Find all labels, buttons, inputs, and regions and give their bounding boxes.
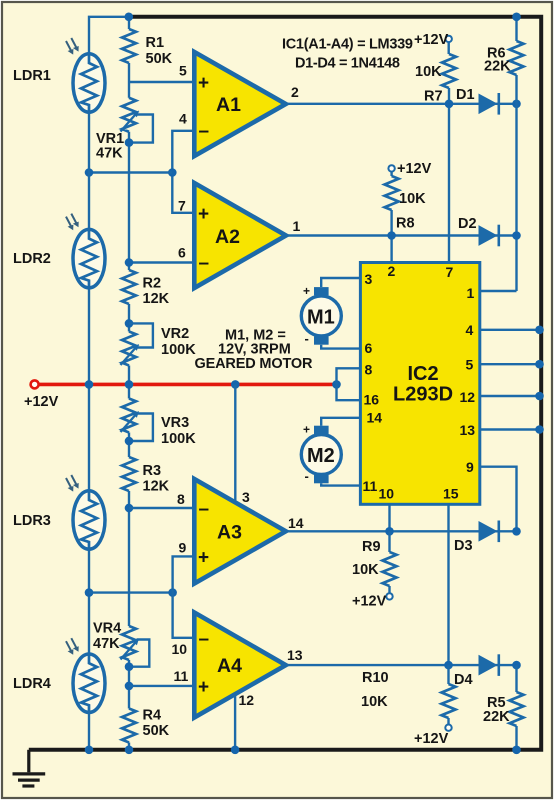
wire IC1 gnd pin 12 <box>234 694 236 750</box>
node R10/A4 out <box>444 661 453 670</box>
diode D3 <box>479 521 499 543</box>
svg-text:A2: A2 <box>215 226 240 248</box>
wire LDR4 to rail <box>88 712 90 749</box>
motor M2 <box>301 426 341 484</box>
svg-text:22K: 22K <box>484 59 511 75</box>
wire IC2 pin4 to rail <box>480 329 540 331</box>
svg-text:-: - <box>305 469 309 484</box>
svg-text:22K: 22K <box>483 709 510 725</box>
wire VR2 to VR3 <box>128 366 130 399</box>
svg-text:D4: D4 <box>454 672 473 688</box>
wire LDR3 to node <box>88 549 90 654</box>
svg-text:M2: M2 <box>307 445 335 467</box>
node LDR3/LDR4 <box>85 588 94 597</box>
wire pin11 A4 <box>129 685 194 687</box>
resistor R1 <box>122 29 136 63</box>
svg-text:+: + <box>198 548 209 569</box>
resistor R6 <box>515 17 517 41</box>
preset VR2 <box>122 332 136 366</box>
ground symbol <box>13 750 46 786</box>
svg-text:LDR4: LDR4 <box>13 676 51 692</box>
svg-text:15: 15 <box>443 486 459 502</box>
svg-text:14: 14 <box>367 410 383 426</box>
svg-text:L293D: L293D <box>393 384 453 406</box>
svg-text:+12V: +12V <box>24 394 59 410</box>
svg-text:12: 12 <box>239 692 255 708</box>
svg-text:LDR1: LDR1 <box>13 68 51 84</box>
wire IC2 pin13 to rail <box>480 428 540 430</box>
svg-text:–: – <box>199 253 210 274</box>
svg-text:4: 4 <box>466 322 474 338</box>
wire M2 to IC2 pin11 <box>321 483 360 485</box>
+12V terminal R7 <box>446 36 452 42</box>
svg-text:10: 10 <box>379 486 395 502</box>
wire R4 to rail <box>128 743 130 750</box>
svg-text:R3: R3 <box>143 463 162 479</box>
node VR1 bottom <box>125 138 134 147</box>
node VR4 loop <box>125 662 134 671</box>
svg-text:IC2: IC2 <box>408 363 439 385</box>
svg-text:7: 7 <box>178 198 186 214</box>
wire LDR1 to LDR2 <box>88 113 90 230</box>
svg-text:3: 3 <box>242 489 250 505</box>
svg-text:11: 11 <box>174 668 189 684</box>
node R2 top <box>125 258 134 267</box>
resistor R9 10K <box>388 531 390 552</box>
LDR2 light arrows <box>66 217 73 231</box>
wire IC2 pin3 to M1 <box>321 278 360 287</box>
op-amp A4 <box>194 613 285 718</box>
svg-text:+12V: +12V <box>397 161 432 177</box>
resistor R2 <box>122 270 136 304</box>
svg-text:R1: R1 <box>146 35 165 51</box>
resistor R5 <box>515 665 517 692</box>
resistor R7 10K <box>442 54 456 88</box>
svg-text:13: 13 <box>287 647 303 663</box>
svg-text:10K: 10K <box>361 694 388 710</box>
resistor R10 10K <box>447 665 449 684</box>
wire A2 output <box>286 234 517 236</box>
node red/IC1 supply <box>231 380 240 389</box>
node LDR4 bottom <box>85 746 94 755</box>
wire R2 to VR2 <box>128 304 130 332</box>
svg-text:16: 16 <box>364 392 380 408</box>
svg-text:8: 8 <box>177 491 185 507</box>
svg-text:6: 6 <box>365 340 373 356</box>
svg-text:14: 14 <box>288 515 304 531</box>
node pin11 branch <box>125 682 134 691</box>
wire IC2 pin5 to rail <box>480 363 540 365</box>
node D1 cathode <box>512 100 521 109</box>
svg-text:VR3: VR3 <box>161 415 189 431</box>
resistor R8 10K <box>385 176 399 210</box>
node LDR1/LDR2 <box>85 168 94 177</box>
svg-text:–: – <box>199 499 210 520</box>
svg-text:47K: 47K <box>96 146 123 162</box>
svg-text:10K: 10K <box>415 64 442 80</box>
wire R8 to IC2 pin2 <box>390 210 392 262</box>
wire R1 to VR1 <box>128 63 130 98</box>
wire IC2 pin12 to rail <box>480 395 540 397</box>
svg-text:2: 2 <box>291 84 299 100</box>
svg-text:4: 4 <box>179 111 187 127</box>
svg-text:D2: D2 <box>458 216 477 232</box>
svg-text:GEARED MOTOR: GEARED MOTOR <box>195 356 314 372</box>
wire M1 to IC2 pin6 <box>321 345 360 349</box>
svg-text:10: 10 <box>172 641 188 657</box>
node D3 cathode <box>512 527 521 536</box>
svg-text:8: 8 <box>365 362 373 378</box>
svg-text:LDR2: LDR2 <box>13 251 51 267</box>
svg-text:LDR3: LDR3 <box>13 513 51 529</box>
LDR2 <box>73 229 105 287</box>
wire IC2 pin8 to +12V <box>337 368 361 384</box>
svg-text:D1-D4 = 1N4148: D1-D4 = 1N4148 <box>295 56 400 72</box>
svg-text:R4: R4 <box>143 708 162 724</box>
wire pin8 A3 <box>129 507 194 509</box>
resistor R3 <box>122 457 136 491</box>
svg-text:A1: A1 <box>216 94 241 116</box>
node rail top R6 <box>512 12 521 21</box>
node VR2 top <box>125 319 134 328</box>
resistor R4 <box>122 709 136 743</box>
wire R3 to VR4 <box>128 491 130 626</box>
wire LDR node to ref node <box>89 171 172 173</box>
wire A3 output <box>286 530 517 532</box>
wire pin4 branch <box>172 131 194 213</box>
wire IC2 pin9 to D3 node <box>480 467 517 532</box>
wire A1 output <box>286 103 517 105</box>
svg-text:IC1(A1-A4) = LM339: IC1(A1-A4) = LM339 <box>282 37 413 53</box>
svg-text:VR2: VR2 <box>161 326 189 342</box>
svg-text:R7: R7 <box>424 89 443 105</box>
svg-text:+: + <box>198 204 209 225</box>
wire R1 top stub <box>128 17 130 29</box>
wire A4 output <box>286 664 517 666</box>
svg-text:12: 12 <box>460 389 476 405</box>
diode D2 <box>479 225 499 247</box>
svg-text:50K: 50K <box>143 723 170 739</box>
svg-text:10K: 10K <box>352 562 379 578</box>
preset VR4 <box>122 626 136 660</box>
wire IC1 V+ pin 3 <box>234 384 236 503</box>
svg-text:+12V: +12V <box>352 594 387 610</box>
svg-text:50K: 50K <box>146 51 173 67</box>
svg-text:A4: A4 <box>217 655 242 677</box>
wire IC2 pin15 to A4 out <box>447 504 449 665</box>
svg-text:9: 9 <box>466 459 474 475</box>
svg-text:13: 13 <box>460 422 476 438</box>
diode D1 <box>479 93 499 115</box>
LDR3 <box>73 491 105 549</box>
svg-text:+: + <box>303 284 310 298</box>
node R3 bottom <box>125 504 134 513</box>
svg-text:12K: 12K <box>143 479 170 495</box>
+12V red wire <box>35 383 337 387</box>
svg-text:+12V: +12V <box>414 731 449 747</box>
node R5 rail <box>512 746 521 755</box>
VR2 wiper loop wire <box>129 323 153 347</box>
svg-text:9: 9 <box>179 540 187 556</box>
svg-text:D1: D1 <box>456 87 475 103</box>
svg-text:R8: R8 <box>396 216 415 232</box>
+12V terminal <box>31 380 39 388</box>
wire IC2 pin16 to +12V <box>337 384 361 400</box>
svg-text:5: 5 <box>466 357 474 373</box>
+12V terminal R8 <box>388 165 394 171</box>
svg-text:100K: 100K <box>161 431 196 447</box>
wire VR3 to R3 <box>128 433 130 458</box>
svg-text:–: – <box>199 629 210 650</box>
wire R9 bottom <box>388 586 390 593</box>
LDR4 light arrows <box>66 641 73 655</box>
svg-text:+: + <box>198 73 209 94</box>
wire pin1 IC2 <box>480 290 517 292</box>
svg-text:–: – <box>199 121 210 142</box>
svg-text:+: + <box>198 677 209 698</box>
node D4 cathode <box>512 661 521 670</box>
svg-text:10K: 10K <box>399 191 426 207</box>
preset VR1 <box>122 98 136 132</box>
svg-text:5: 5 <box>179 63 187 79</box>
svg-text:R2: R2 <box>143 276 162 292</box>
node pin12 rail <box>231 746 240 755</box>
node R4 bottom <box>125 746 134 755</box>
svg-text:6: 6 <box>178 245 186 261</box>
preset VR3 <box>122 399 136 433</box>
LDR3 light arrows <box>66 478 73 492</box>
svg-text:2: 2 <box>388 263 396 279</box>
svg-text:12K: 12K <box>143 291 170 307</box>
LDR1 <box>73 54 105 112</box>
svg-text:-: - <box>305 331 309 346</box>
VR1 wiper loop wire <box>129 115 153 143</box>
wire IC2 pin10 to A3 out <box>388 504 390 531</box>
wire R5 to rail <box>515 726 517 750</box>
node red/IC2 supply <box>332 380 341 389</box>
node R7/A1 out <box>445 100 454 109</box>
svg-text:VR4: VR4 <box>93 621 121 637</box>
svg-text:+12V: +12V <box>414 32 449 48</box>
wire top-left to LDR1 <box>89 17 129 54</box>
node red/mid chain <box>125 380 134 389</box>
wire VR1 to R2 <box>128 132 130 270</box>
node rail top mid <box>125 12 134 21</box>
diode D4 <box>479 654 499 676</box>
svg-text:3: 3 <box>365 271 373 287</box>
wire R8 top <box>390 172 392 176</box>
node red/left chain <box>85 380 94 389</box>
node VR3 bottom <box>125 437 134 446</box>
motor M1 <box>301 287 341 345</box>
wire IC2 pin14 to M2 <box>321 418 360 426</box>
op-amp A3 <box>194 479 285 584</box>
wire pin9/pin10 branch <box>173 556 195 637</box>
+12V terminal R9 <box>386 593 392 599</box>
svg-text:M1: M1 <box>307 307 335 329</box>
wire ref node A3/A4 <box>89 591 173 593</box>
wire VR4 to R4 <box>128 660 130 709</box>
svg-text:R9: R9 <box>362 539 381 555</box>
svg-text:1: 1 <box>467 285 475 301</box>
+12V terminal R10 <box>445 725 451 731</box>
svg-text:1: 1 <box>293 218 301 234</box>
svg-text:R10: R10 <box>362 670 389 686</box>
wire R7 top <box>448 42 450 54</box>
svg-text:+: + <box>303 423 310 437</box>
node R8/A2 out <box>387 231 396 240</box>
LDR4 <box>73 654 105 712</box>
node R9/A3 out <box>385 527 394 536</box>
op-amp A1 <box>194 52 285 156</box>
node D2 cathode <box>512 231 521 240</box>
VR4 wiper loop wire <box>129 640 149 667</box>
wire LDR2 to +12V node <box>88 288 90 493</box>
svg-text:7: 7 <box>446 264 454 280</box>
svg-text:47K: 47K <box>93 636 120 652</box>
LDR1 light arrows <box>66 41 73 55</box>
svg-text:100K: 100K <box>161 342 196 358</box>
wire pin5 A1 <box>129 81 194 83</box>
svg-text:D3: D3 <box>454 538 473 554</box>
wire pin6 A2 <box>129 261 194 263</box>
IC2 L293D body <box>360 263 479 505</box>
node ref A1/A2 <box>168 168 177 177</box>
svg-text:11: 11 <box>363 478 378 494</box>
op-amp A2 <box>194 183 286 288</box>
wire R10 bottom <box>447 718 449 725</box>
VR3 wiper loop wire <box>129 414 153 442</box>
wire R6 to D1/D2 <box>515 75 517 291</box>
svg-text:A3: A3 <box>217 522 242 544</box>
wire R7 to IC2 pin7 <box>448 88 450 262</box>
